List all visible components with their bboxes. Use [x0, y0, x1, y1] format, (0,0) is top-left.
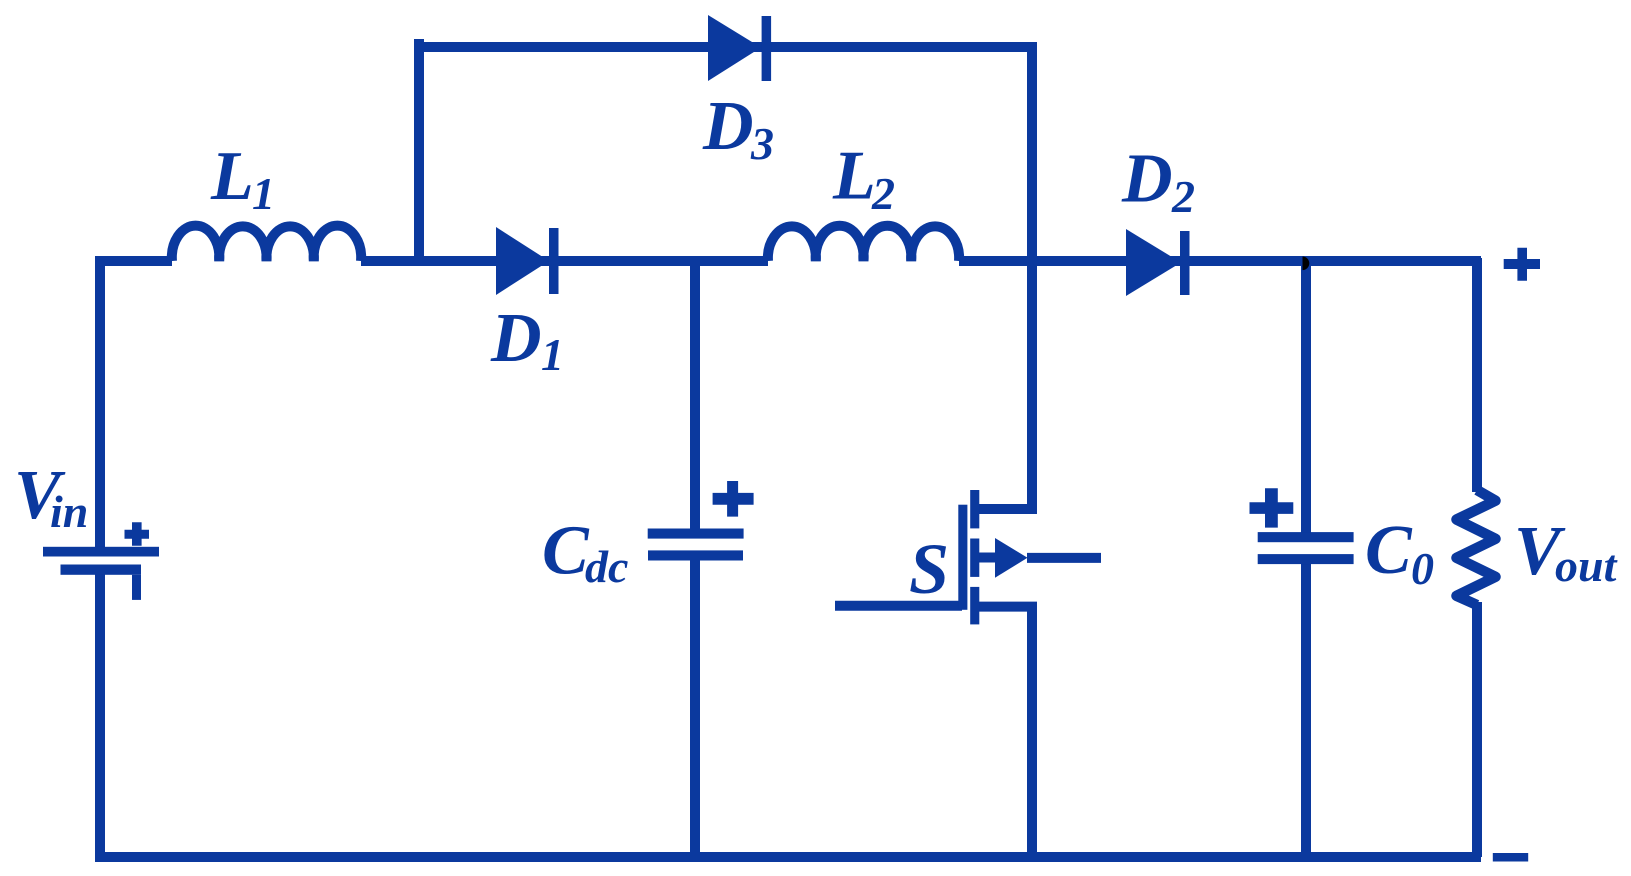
svg-text:0: 0 [1411, 543, 1434, 594]
transistor S source horizontal [979, 602, 1037, 612]
transistor S body stub [979, 553, 996, 563]
wire Vin bottom lead [95, 572, 105, 857]
svg-text:S: S [909, 529, 949, 609]
wire bottom rail [95, 852, 1481, 862]
capacitor Cdc plus sign [713, 481, 754, 517]
diode D1 [496, 227, 549, 295]
resistor Vout zigzag [1457, 490, 1496, 605]
output minus terminal [1493, 853, 1528, 862]
battery Vin plus sign [125, 522, 150, 545]
transistor S gate lead [835, 601, 962, 611]
svg-text:1: 1 [252, 168, 275, 219]
wire Vin top lead [95, 256, 105, 551]
capacitor C0 top plate [1258, 532, 1354, 542]
svg-text:L: L [210, 138, 254, 215]
diode D2 [1126, 229, 1181, 296]
transistor S channel middle segment [970, 539, 979, 577]
wire main node left segment [95, 256, 172, 266]
wire C0 bottom lead [1301, 560, 1311, 857]
transistor S channel bottom segment [970, 587, 979, 625]
diode D3 [708, 15, 761, 81]
capacitor Cdc bottom plate [648, 550, 743, 560]
wire output vertical bottom [1472, 602, 1482, 857]
wire D3 branch vertical [414, 39, 424, 261]
capacitor Cdc top plate [648, 529, 744, 539]
wire top D3 branch [414, 42, 1037, 52]
battery Vin bottom plate [61, 565, 142, 575]
svg-text:D: D [490, 300, 542, 377]
capacitor C0 plus sign [1250, 488, 1294, 527]
svg-text:C: C [1365, 512, 1413, 589]
inductor L1 [172, 226, 361, 261]
svg-text:L: L [832, 138, 876, 215]
wire Cdc top lead [690, 256, 700, 533]
wire C0 top lead [1301, 258, 1311, 537]
wire Cdc bottom lead [690, 556, 700, 857]
svg-text:C: C [542, 513, 590, 590]
transistor S channel top segment [970, 490, 979, 528]
svg-text:in: in [50, 486, 88, 537]
svg-text:dc: dc [585, 541, 628, 592]
svg-text:D: D [1121, 141, 1173, 218]
node junction mark (black) [1303, 257, 1310, 271]
wire drain vertical [1027, 47, 1037, 514]
wire main node right segment [959, 256, 1481, 266]
battery Vin top plate [43, 547, 159, 557]
wire main node middle segment [361, 256, 768, 266]
svg-text:3: 3 [750, 118, 774, 169]
output plus terminal [1504, 248, 1540, 281]
wire output vertical top [1472, 258, 1482, 492]
transistor S body arrow [995, 538, 1028, 578]
svg-text:1: 1 [541, 329, 564, 380]
transistor S body line [1027, 553, 1101, 563]
battery Vin stub [132, 575, 141, 600]
svg-text:out: out [1555, 540, 1618, 591]
wire source vertical [1027, 607, 1037, 857]
capacitor C0 bottom plate [1258, 554, 1354, 564]
inductor L2 [768, 226, 959, 261]
svg-text:2: 2 [1171, 171, 1195, 222]
transistor S gate bar [958, 505, 967, 610]
transistor S drain horizontal [979, 504, 1037, 514]
svg-text:2: 2 [871, 168, 895, 219]
svg-text:D: D [702, 88, 754, 165]
